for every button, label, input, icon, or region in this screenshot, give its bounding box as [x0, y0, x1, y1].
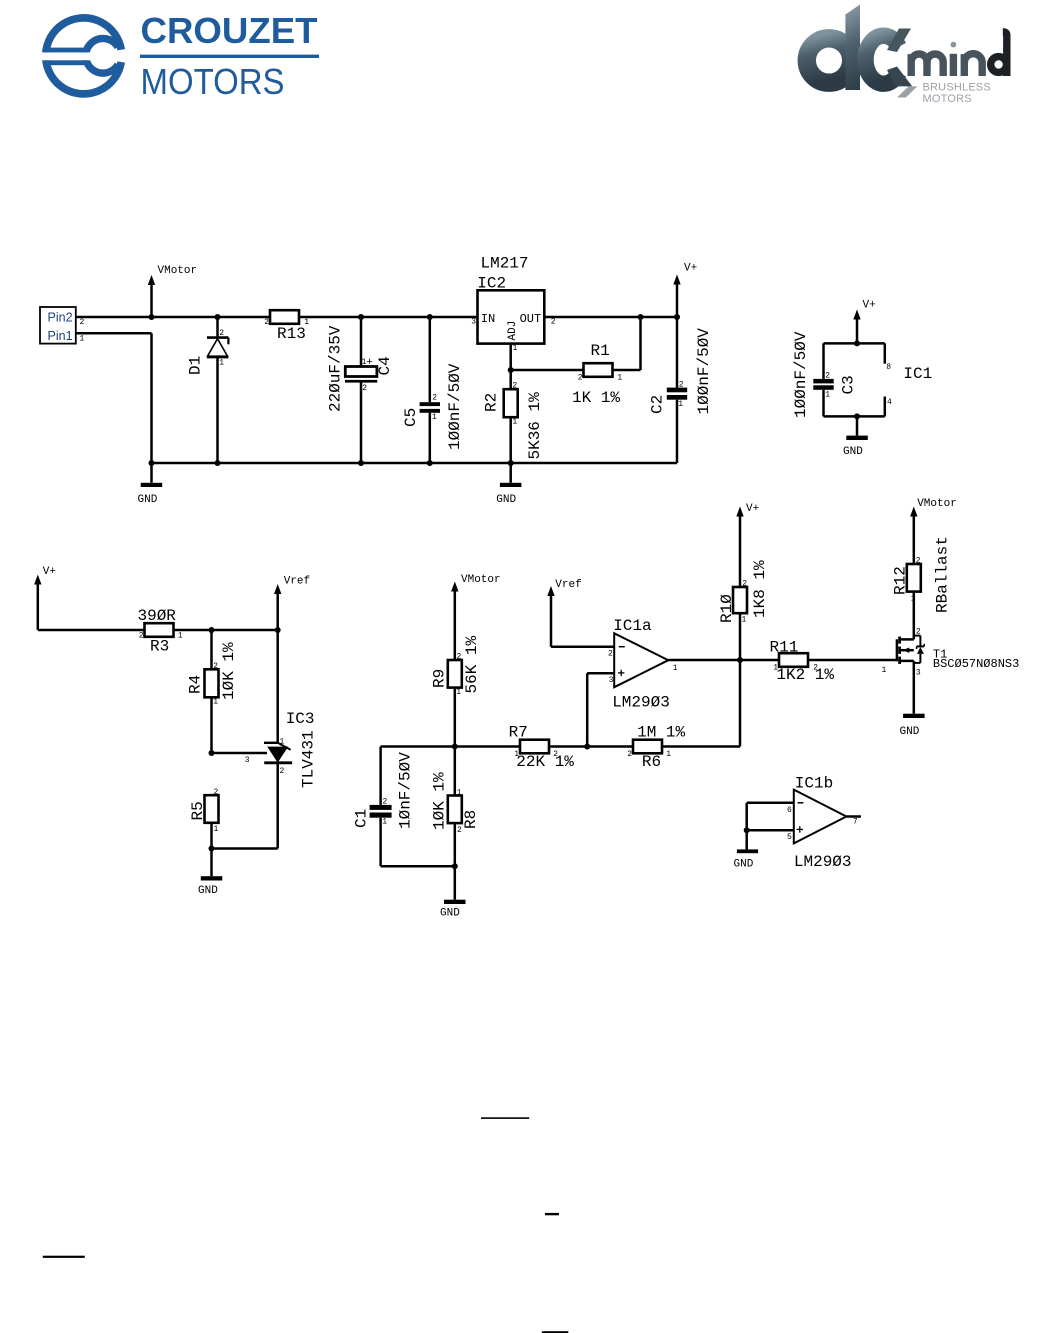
capacitor C2	[649, 317, 714, 463]
svg-text:1: 1	[178, 632, 183, 641]
svg-text:2: 2	[627, 750, 632, 759]
svg-text:1: 1	[304, 318, 309, 327]
junction C1/R8 bottom	[452, 863, 458, 869]
svg-text:2: 2	[825, 371, 830, 380]
svg-text:C3: C3	[840, 375, 858, 394]
wire ref to IC3	[212, 752, 268, 755]
svg-text:Pin2: Pin2	[48, 311, 73, 325]
svg-text:1: 1	[513, 344, 518, 353]
svg-text:R3: R3	[150, 638, 169, 656]
Crouzet logo mark	[40, 18, 121, 94]
svg-text:6: 6	[787, 806, 792, 815]
wire to IC1a noninverting input	[587, 673, 614, 746]
svg-text:IC1: IC1	[903, 365, 932, 383]
svg-text:LM29Ø3: LM29Ø3	[794, 853, 852, 871]
svg-text:IC2: IC2	[477, 274, 506, 292]
svg-text:1: 1	[213, 698, 218, 707]
wire IC1 supply loop	[824, 343, 885, 416]
svg-text:2: 2	[383, 798, 388, 807]
underline fragment 1	[481, 1117, 529, 1119]
svg-text:D1: D1	[187, 356, 205, 375]
resistor R6	[627, 723, 685, 771]
resistor R12	[892, 536, 952, 639]
junction bottom rail at C5	[427, 460, 433, 466]
svg-text:1: 1	[382, 818, 387, 827]
svg-text:IC1b: IC1b	[795, 775, 833, 793]
svg-text:1: 1	[666, 750, 671, 759]
svg-text:1: 1	[214, 825, 219, 834]
junction OUT at V+/C2	[674, 314, 680, 320]
wire IC2 OUT to V+	[544, 316, 677, 319]
resistor R10	[718, 560, 769, 660]
junction R9/C1/R7	[452, 744, 458, 750]
svg-text:V+: V+	[684, 263, 697, 275]
svg-text:2: 2	[608, 649, 613, 658]
svg-text:4: 4	[887, 398, 892, 407]
resistor R7	[509, 723, 575, 771]
svg-text:2: 2	[553, 750, 558, 759]
wire R3 to Vref	[174, 629, 278, 632]
resistor R8	[431, 747, 481, 867]
ground under T1	[900, 714, 925, 738]
svg-text:R1: R1	[591, 342, 610, 360]
DCmind logo	[807, 5, 1007, 106]
shunt regulator IC3 TLV431	[245, 630, 318, 849]
svg-text:1K8 1%: 1K8 1%	[751, 560, 769, 618]
svg-text:LM217: LM217	[481, 255, 529, 273]
svg-text:1: 1	[825, 390, 830, 399]
svg-text:5K36 1%: 5K36 1%	[526, 392, 544, 460]
svg-text:IN: IN	[481, 312, 495, 326]
svg-text:GND: GND	[734, 859, 754, 871]
net V+ arrow at IC1 supply	[853, 300, 875, 344]
svg-text:1ØØnF/5ØV: 1ØØnF/5ØV	[792, 331, 810, 418]
resistor R13	[264, 310, 309, 343]
svg-text:R5: R5	[189, 801, 207, 820]
svg-text:22ØuF/35V: 22ØuF/35V	[327, 325, 345, 412]
svg-text:8: 8	[886, 363, 891, 372]
junction bottom rail at D1	[215, 460, 221, 466]
svg-text:R11: R11	[770, 639, 799, 657]
net V+ arrow lower left	[34, 566, 56, 630]
svg-text:VMotor: VMotor	[461, 574, 501, 586]
svg-text:2: 2	[813, 663, 818, 672]
wire R6 feedback	[662, 660, 740, 747]
svg-text:2: 2	[139, 632, 144, 641]
ground under R2	[496, 463, 521, 506]
ground under R5	[198, 849, 222, 897]
junction top rail at C5	[427, 314, 433, 320]
svg-text:1: 1	[456, 688, 461, 697]
svg-text:1: 1	[280, 738, 285, 747]
capacitor C1	[353, 747, 455, 867]
svg-text:V+: V+	[43, 566, 56, 578]
svg-text:VMotor: VMotor	[917, 498, 957, 510]
capacitor C3	[792, 331, 858, 418]
svg-text:3: 3	[609, 676, 614, 685]
regulator IC2 LM217	[471, 255, 556, 354]
junction top rail at VMotor	[149, 314, 155, 320]
svg-text:MOTORS: MOTORS	[923, 93, 972, 105]
net V+ arrow at R10	[736, 503, 759, 587]
junction R5/IC3 anode	[209, 846, 215, 852]
svg-text:MOTORS: MOTORS	[141, 61, 285, 102]
wire IC1b inputs to ground	[747, 803, 794, 830]
svg-text:1: 1	[617, 373, 622, 382]
svg-text:2: 2	[916, 627, 921, 636]
resistor R2	[483, 381, 545, 463]
op-amp IC1a LM2903	[608, 617, 678, 712]
svg-text:1: 1	[742, 616, 747, 625]
svg-text:1ØnF/5ØV: 1ØnF/5ØV	[397, 752, 415, 829]
svg-text:GND: GND	[198, 885, 218, 897]
junction output node	[737, 657, 743, 663]
svg-text:2: 2	[512, 381, 517, 390]
svg-text:R12: R12	[892, 566, 910, 595]
resistor R5	[189, 788, 219, 849]
wire Pin1 to GND rail	[76, 333, 152, 463]
resistor R11	[740, 639, 895, 685]
wire gate	[895, 659, 897, 662]
svg-text:1ØK 1%: 1ØK 1%	[431, 772, 449, 830]
net VMotor arrow mid	[451, 574, 501, 660]
svg-text:3: 3	[245, 756, 250, 765]
svg-text:R4: R4	[187, 675, 205, 694]
svg-text:2: 2	[679, 381, 684, 390]
svg-text:V+: V+	[746, 503, 759, 515]
svg-text:R9: R9	[431, 669, 449, 688]
ground under IC1b	[734, 830, 759, 870]
net VMotor arrow at R12	[910, 498, 957, 564]
svg-text:1ØØnF/5ØV: 1ØØnF/5ØV	[446, 363, 464, 450]
svg-text:1: 1	[219, 358, 224, 367]
net Vref arrow left	[274, 575, 310, 630]
svg-text:RBallast: RBallast	[934, 536, 952, 613]
junction top rail at D1	[215, 314, 221, 320]
svg-text:1: 1	[678, 400, 683, 409]
svg-text:VMotor: VMotor	[158, 265, 198, 277]
svg-text:GND: GND	[900, 726, 920, 738]
junction V+ at IC1	[854, 340, 860, 346]
svg-text:2: 2	[264, 318, 269, 327]
ground left	[138, 463, 163, 506]
op-amp IC1b LM2903	[787, 775, 861, 871]
underline fragment 4	[542, 1331, 568, 1333]
junction GND at IC1	[854, 413, 860, 419]
svg-text:Pin1: Pin1	[48, 329, 73, 343]
junction ADJ	[508, 367, 514, 373]
junction IC1b inputs	[744, 827, 750, 833]
junction bottom rail at R2	[508, 460, 514, 466]
wire IC1a output	[668, 659, 740, 662]
wire Vref to IC1a inverting input	[551, 645, 614, 648]
net V+ arrow at C2	[673, 263, 697, 318]
svg-text:GND: GND	[138, 494, 158, 506]
svg-text:2: 2	[280, 767, 285, 776]
diode D1 zener	[187, 317, 229, 463]
wire R7 to R6	[549, 745, 633, 748]
svg-text:1: 1	[911, 594, 916, 603]
svg-text:2: 2	[916, 556, 921, 565]
op-amp IC1 power pins	[886, 363, 932, 407]
resistor R9	[431, 635, 482, 746]
dash fragment 2	[545, 1213, 559, 1215]
svg-text:OUT: OUT	[520, 312, 542, 326]
svg-text:BSCØ57NØ8NS3: BSCØ57NØ8NS3	[933, 657, 1019, 671]
svg-text:R6: R6	[642, 753, 661, 771]
svg-text:1K2 1%: 1K2 1%	[776, 666, 834, 684]
svg-text:1: 1	[882, 666, 887, 675]
junction R3/R4	[209, 627, 215, 633]
svg-text:Vref: Vref	[555, 579, 581, 591]
svg-text:1ØK 1%: 1ØK 1%	[220, 642, 238, 700]
svg-text:TLV431: TLV431	[300, 730, 318, 788]
svg-text:2: 2	[578, 373, 583, 382]
svg-text:1K 1%: 1K 1%	[572, 389, 620, 407]
resistor R4	[187, 630, 239, 753]
svg-text:LM29Ø3: LM29Ø3	[612, 694, 670, 712]
svg-text:1: 1	[432, 413, 437, 422]
junction noninverting node	[584, 744, 590, 750]
svg-text:Vref: Vref	[284, 575, 310, 587]
svg-text:3: 3	[471, 317, 476, 326]
capacitor C4 electrolytic	[327, 317, 395, 463]
svg-text:BRUSHLESS: BRUSHLESS	[923, 81, 991, 93]
wire V+ to R3	[38, 629, 145, 632]
svg-text:2: 2	[214, 788, 219, 797]
svg-text:2: 2	[80, 318, 85, 327]
junction Vref	[275, 627, 281, 633]
svg-text:2: 2	[219, 329, 224, 338]
junction top rail at C4	[358, 314, 364, 320]
svg-text:2: 2	[362, 384, 367, 393]
junction bottom rail at Pin1	[149, 460, 155, 466]
capacitor C5	[402, 317, 464, 463]
resistor R3	[138, 607, 183, 656]
svg-text:C4: C4	[376, 356, 394, 375]
svg-text:1ØØnF/5ØV: 1ØØnF/5ØV	[695, 328, 713, 415]
svg-text:R13: R13	[277, 325, 306, 343]
svg-text:C2: C2	[649, 395, 667, 414]
resistor R1	[572, 342, 622, 407]
svg-text:39ØR: 39ØR	[138, 607, 177, 625]
junction R4/R5/ref	[209, 750, 215, 756]
svg-text:1: 1	[514, 750, 519, 759]
ground under R8	[440, 866, 466, 919]
connector Pin1/Pin2 header	[40, 307, 85, 344]
svg-text:1: 1	[673, 664, 678, 673]
svg-text:2: 2	[432, 394, 437, 403]
svg-text:GND: GND	[496, 494, 516, 506]
net VMotor arrow left	[148, 265, 197, 317]
svg-text:1: 1	[80, 335, 85, 344]
svg-text:3: 3	[916, 669, 921, 678]
svg-text:ADJ: ADJ	[507, 321, 519, 341]
svg-text:1: 1	[457, 788, 462, 797]
wire IC2 ADJ node	[511, 317, 641, 389]
wire VMotor rail top	[76, 316, 478, 319]
wire GND bottom rail	[152, 462, 678, 465]
svg-text:+: +	[366, 357, 373, 369]
junction bottom rail at C4	[358, 460, 364, 466]
Crouzet wordmark	[140, 10, 319, 102]
svg-text:CROUZET: CROUZET	[141, 10, 318, 51]
svg-text:2: 2	[742, 580, 747, 589]
junction OUT at R1 branch	[638, 314, 644, 320]
svg-text:2: 2	[551, 317, 556, 326]
svg-text:GND: GND	[440, 907, 460, 919]
svg-text:1: 1	[773, 663, 778, 672]
svg-text:56K 1%: 56K 1%	[463, 635, 481, 693]
svg-text:1: 1	[512, 418, 517, 427]
net Vref arrow mid	[547, 579, 581, 647]
svg-text:2: 2	[213, 662, 218, 671]
svg-text:C1: C1	[353, 809, 371, 828]
underline fragment 3	[43, 1256, 85, 1258]
svg-text:IC1a: IC1a	[613, 617, 652, 635]
ground under IC1	[843, 416, 868, 457]
svg-text:2: 2	[457, 652, 462, 661]
svg-text:7: 7	[853, 817, 858, 826]
svg-text:5: 5	[787, 833, 792, 842]
wire sense node	[381, 745, 520, 748]
svg-text:R7: R7	[509, 723, 528, 741]
wire anode return	[212, 847, 278, 850]
svg-text:R8: R8	[462, 810, 480, 829]
transistor T1 BSC057N08NS3	[882, 627, 1020, 713]
svg-text:V+: V+	[863, 300, 876, 312]
svg-text:GND: GND	[843, 446, 863, 458]
svg-text:R2: R2	[483, 393, 501, 412]
svg-text:R1Ø: R1Ø	[718, 594, 736, 623]
svg-text:22K 1%: 22K 1%	[516, 753, 574, 771]
svg-text:C5: C5	[402, 408, 420, 427]
svg-text:1M 1%: 1M 1%	[637, 723, 685, 741]
svg-text:IC3: IC3	[286, 710, 315, 728]
